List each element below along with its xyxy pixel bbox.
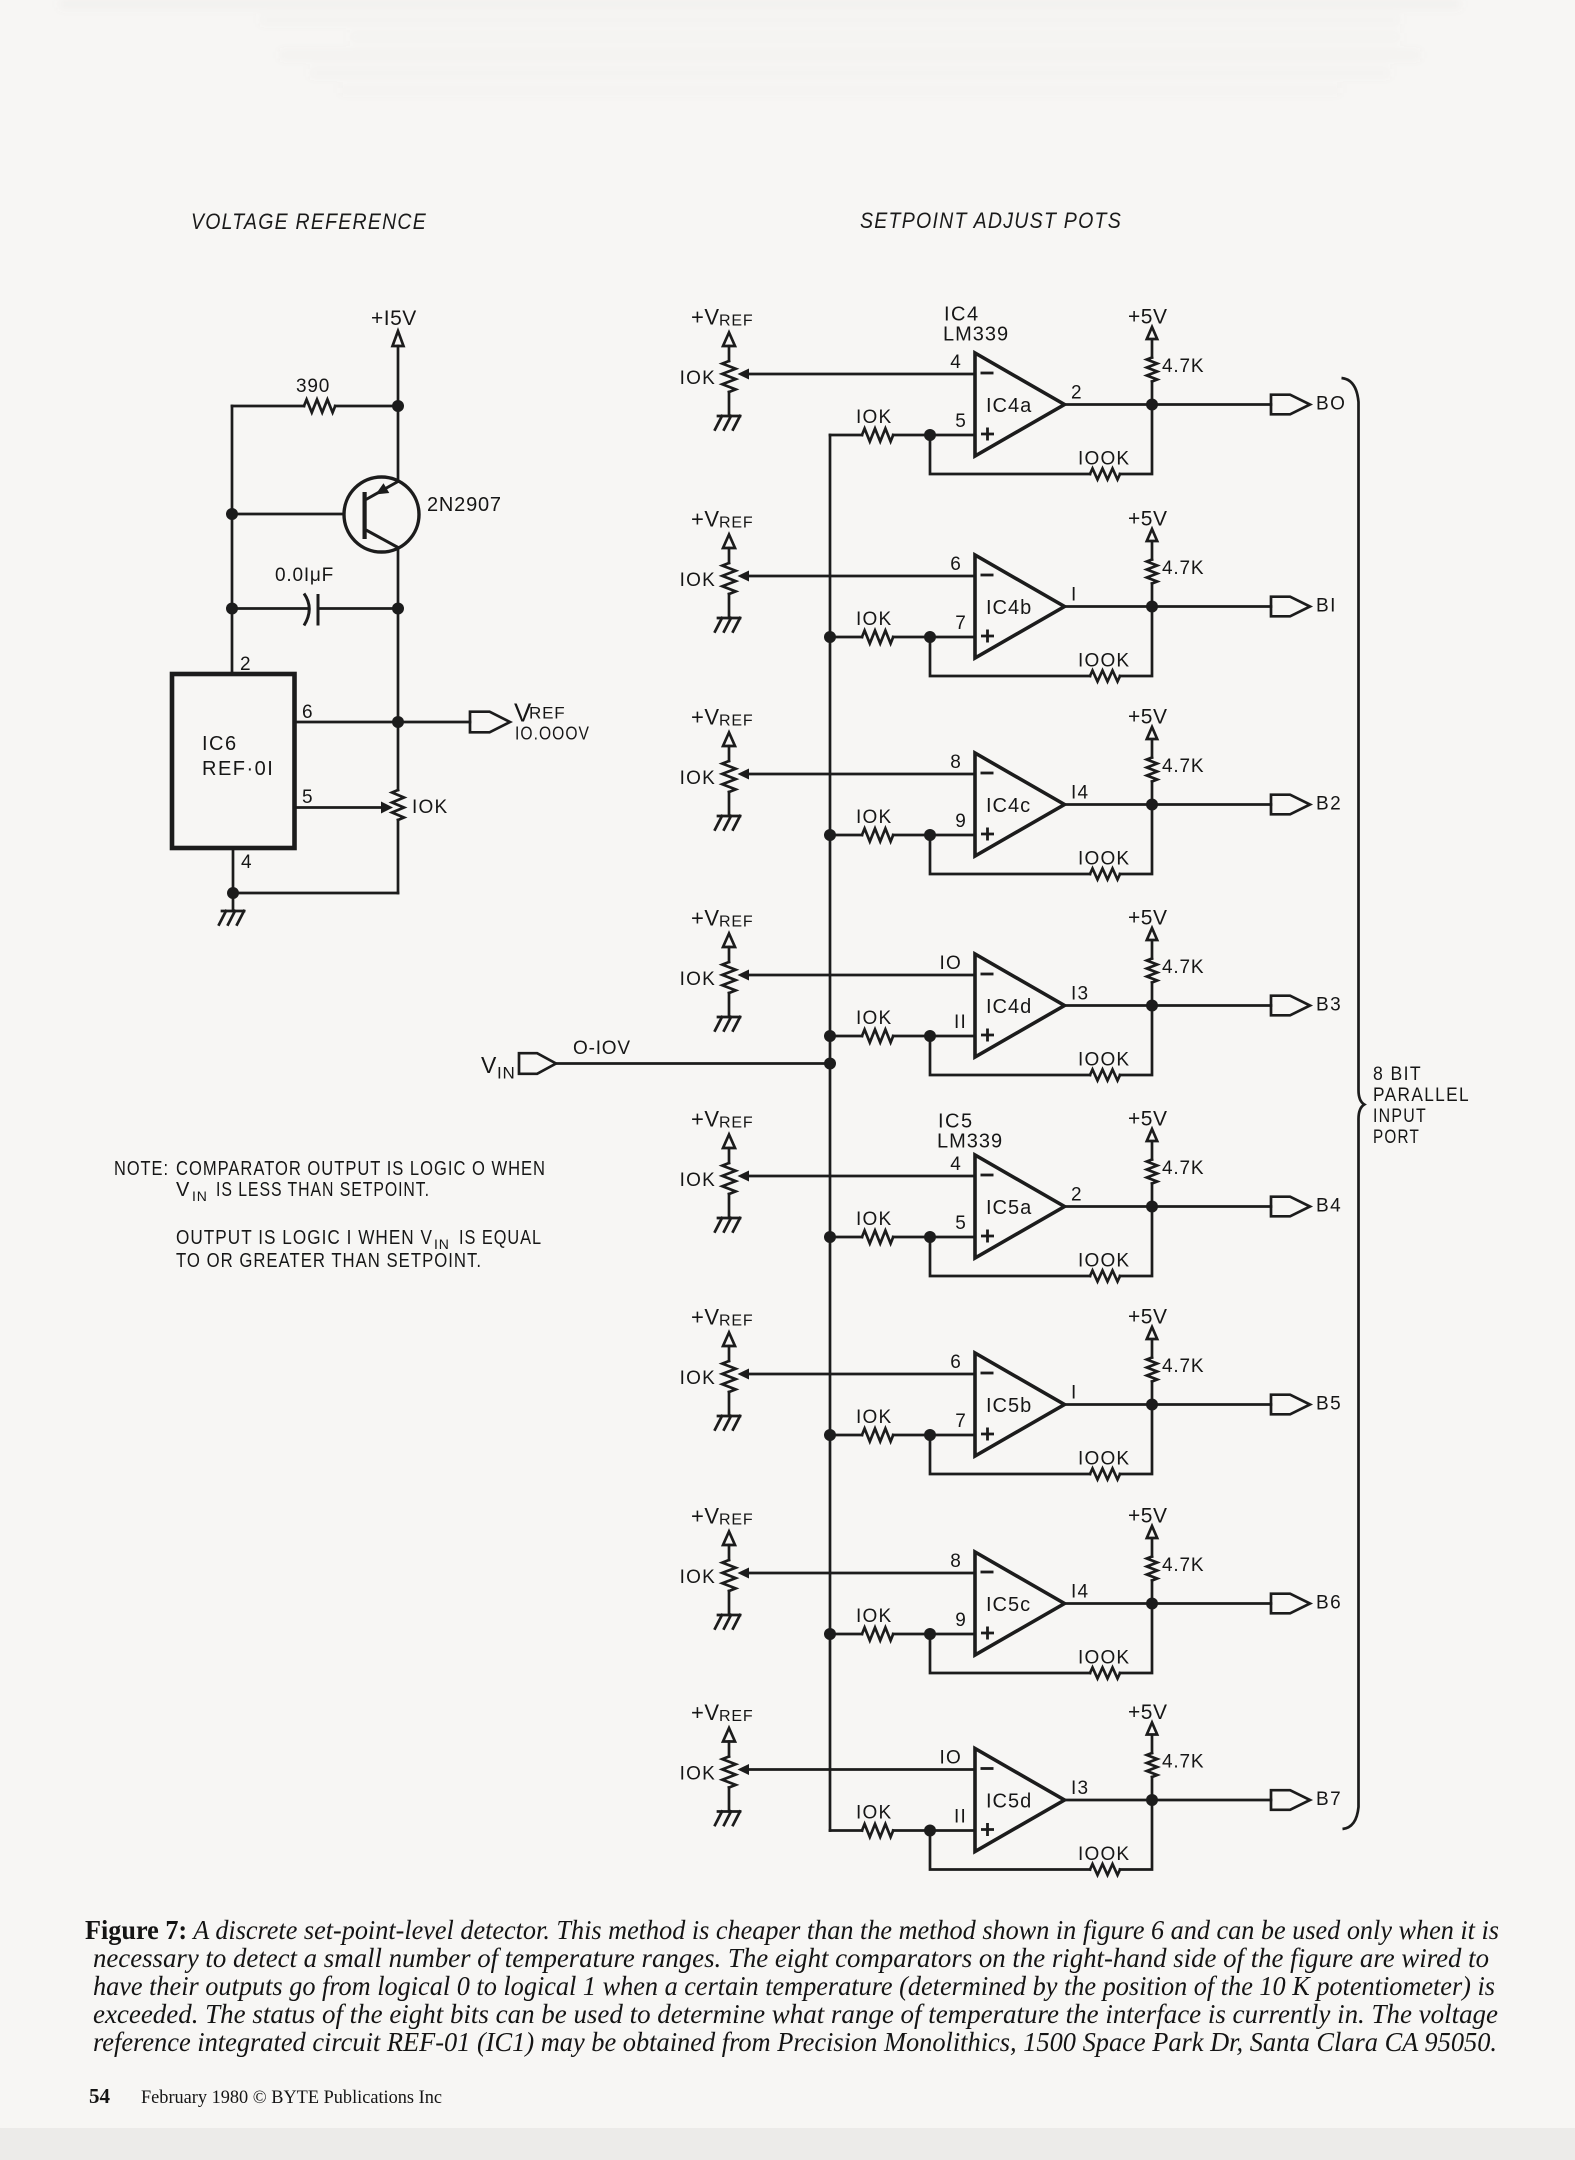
- svg-text:PORT: PORT: [1373, 1127, 1420, 1148]
- comparator stage IC5c: [680, 1504, 1310, 1679]
- net VIN label: [481, 1052, 516, 1083]
- svg-text:2N2907: 2N2907: [427, 494, 502, 516]
- svg-text:IS LESS THAN SETPOINT.: IS LESS THAN SETPOINT.: [216, 1179, 430, 1201]
- svg-text:B4: B4: [1316, 1196, 1342, 1217]
- node top junction: [392, 400, 404, 412]
- svg-text:8: 8: [950, 1551, 962, 1572]
- svg-text:IC4c: IC4c: [986, 795, 1031, 817]
- port VIN input flag: [519, 1053, 556, 1074]
- wire pin5 wiper arrow: [295, 802, 394, 814]
- resistor R 390: [232, 376, 398, 413]
- comparator stage IC4b: [680, 507, 1310, 682]
- svg-text:TO OR GREATER THAN SETPOINT.: TO OR GREATER THAN SETPOINT.: [176, 1250, 482, 1272]
- svg-text:IC4b: IC4b: [986, 597, 1032, 619]
- net VREF 10.000V label: [514, 698, 590, 744]
- svg-text:NOTE:: NOTE:: [114, 1158, 169, 1180]
- wire VIN distribution bus: [829, 435, 832, 1831]
- svg-text:PARALLEL: PARALLEL: [1373, 1085, 1470, 1106]
- svg-text:6: 6: [950, 554, 962, 575]
- svg-text:IC4d: IC4d: [986, 996, 1032, 1018]
- svg-text:IO.OOOV: IO.OOOV: [515, 724, 590, 744]
- svg-text:0.0IμF: 0.0IμF: [275, 565, 334, 586]
- wire pot to bottom rail: [397, 820, 400, 893]
- svg-text:8: 8: [950, 752, 962, 773]
- svg-text:2: 2: [1071, 1185, 1083, 1206]
- wire emitter to +15V junction: [397, 406, 400, 482]
- svg-text:54: 54: [89, 2084, 111, 2108]
- svg-text:5: 5: [955, 411, 967, 432]
- svg-text:B6: B6: [1316, 1593, 1342, 1614]
- note text: [114, 1158, 546, 1204]
- svg-text:reference integrated circuit R: reference integrated circuit REF-01 (IC1…: [93, 2027, 1497, 2057]
- wire left vertical rail: [231, 406, 234, 674]
- svg-text:II: II: [954, 1807, 967, 1828]
- op-amp IC6 REF-01 box: [172, 674, 295, 848]
- capacitor C 0.01uF: [232, 565, 398, 626]
- svg-text:2: 2: [1071, 383, 1083, 404]
- decorative bleed (not labelled further): [60, 0, 1460, 94]
- svg-text:B5: B5: [1316, 1394, 1342, 1415]
- svg-text:OUTPUT IS LOGIC I WHEN V: OUTPUT IS LOGIC I WHEN V: [176, 1227, 433, 1249]
- svg-text:INPUT: INPUT: [1373, 1106, 1427, 1127]
- svg-text:I4: I4: [1071, 1582, 1089, 1603]
- svg-text:7: 7: [955, 1411, 967, 1432]
- node bus junction stage 6: [824, 1429, 836, 1441]
- node bus junction VIN: [824, 1058, 836, 1070]
- svg-text:REF: REF: [529, 704, 565, 723]
- svg-text:SETPOINT ADJUST POTS: SETPOINT ADJUST POTS: [860, 208, 1122, 233]
- node bus junction stage 5: [824, 1231, 836, 1243]
- svg-text:REF·0I: REF·0I: [202, 758, 274, 780]
- comparator stage IC4c: [680, 705, 1310, 880]
- svg-text:4: 4: [950, 352, 962, 373]
- svg-text:I: I: [1071, 585, 1077, 606]
- svg-text:IC5d: IC5d: [986, 1791, 1032, 1813]
- svg-text:B3: B3: [1316, 995, 1342, 1016]
- svg-text:February 1980 © BYTE Publicati: February 1980 © BYTE Publications Inc: [141, 2087, 442, 2108]
- node bus junction stage 7: [824, 1628, 836, 1640]
- svg-text:II: II: [954, 1012, 967, 1033]
- svg-text:IO: IO: [940, 953, 962, 974]
- svg-text:IO: IO: [940, 1748, 962, 1769]
- svg-text:4: 4: [950, 1154, 962, 1175]
- transistor Q1 2N2907: [344, 477, 502, 552]
- svg-text:B7: B7: [1316, 1789, 1342, 1810]
- svg-text:COMPARATOR OUTPUT IS LOGIC O W: COMPARATOR OUTPUT IS LOGIC O WHEN: [176, 1158, 546, 1180]
- ground (reference): [219, 893, 244, 925]
- svg-text:IC5a: IC5a: [986, 1197, 1032, 1219]
- svg-text:have their outputs go from log: have their outputs go from logical 0 to …: [93, 1971, 1495, 2001]
- svg-text:I3: I3: [1071, 1778, 1089, 1799]
- note text second paragraph: [176, 1227, 542, 1272]
- svg-text:Figure 7: A discrete set-point: Figure 7: A discrete set-point-level det…: [85, 1915, 1499, 1945]
- svg-text:6: 6: [302, 702, 314, 723]
- svg-text:V: V: [481, 1052, 498, 1078]
- +15V power arrow: [393, 331, 404, 346]
- wire collector down to VREF node: [397, 548, 400, 723]
- wire pin6 to VREF flag: [295, 721, 471, 724]
- node VREF junction: [392, 716, 404, 728]
- svg-text:IOK: IOK: [412, 797, 448, 818]
- node capacitor left junction: [226, 603, 238, 615]
- wire base: [232, 513, 363, 516]
- comparator stage IC5d: [680, 1700, 1310, 1875]
- svg-text:6: 6: [950, 1352, 962, 1373]
- svg-text:4: 4: [241, 852, 253, 873]
- comparator stage IC4d: [680, 906, 1310, 1081]
- svg-text:7: 7: [955, 613, 967, 634]
- wire VIN to bus: [556, 1062, 830, 1065]
- svg-text:I3: I3: [1071, 984, 1089, 1005]
- node bus junction stage 4: [824, 1030, 836, 1042]
- node bus junction stage 3: [824, 829, 836, 841]
- svg-text:IC6: IC6: [202, 733, 238, 755]
- svg-text:IC5b: IC5b: [986, 1395, 1032, 1417]
- comparator stage IC5a: [680, 1107, 1310, 1282]
- node base junction: [226, 508, 238, 520]
- wire +15V to top junction: [397, 346, 400, 406]
- IC5 LM339 label: [937, 1111, 1003, 1153]
- svg-text:IN: IN: [497, 1064, 516, 1083]
- svg-text:IC4: IC4: [944, 304, 980, 326]
- svg-text:8 BIT: 8 BIT: [1373, 1064, 1422, 1085]
- node ground junction: [227, 887, 239, 899]
- label 8 BIT PARALLEL INPUT PORT: [1373, 1064, 1470, 1148]
- svg-text:IS EQUAL: IS EQUAL: [459, 1227, 542, 1249]
- svg-text:IN: IN: [192, 1188, 208, 1204]
- wire bottom return: [233, 892, 398, 895]
- brace 8-bit port: [1342, 378, 1365, 1829]
- node bus junction stage 2: [824, 631, 836, 643]
- IC4 LM339 label: [943, 304, 1009, 346]
- svg-text:BO: BO: [1316, 394, 1346, 415]
- svg-text:B2: B2: [1316, 794, 1342, 815]
- potentiometer 10K (reference trim): [392, 722, 448, 820]
- svg-text:exceeded. The status of the ei: exceeded. The status of the eight bits c…: [93, 1999, 1498, 2029]
- svg-text:9: 9: [955, 811, 967, 832]
- caption figure 7: [85, 1915, 1499, 2057]
- svg-text:LM339: LM339: [943, 324, 1009, 346]
- svg-text:IC4a: IC4a: [986, 395, 1032, 417]
- comparator stage IC5b: [680, 1305, 1310, 1480]
- svg-text:V: V: [176, 1179, 191, 1201]
- svg-text:390: 390: [296, 376, 330, 397]
- svg-text:+I5V: +I5V: [371, 307, 417, 330]
- svg-text:IC5c: IC5c: [986, 1594, 1031, 1616]
- svg-text:VOLTAGE REFERENCE: VOLTAGE REFERENCE: [191, 209, 427, 234]
- VREF output flag: [470, 712, 510, 733]
- node capacitor right junction: [392, 603, 404, 615]
- svg-text:IC5: IC5: [938, 1111, 974, 1133]
- svg-text:5: 5: [955, 1213, 967, 1234]
- svg-text:5: 5: [302, 787, 314, 808]
- svg-text:I4: I4: [1071, 783, 1089, 804]
- svg-text:O-IOV: O-IOV: [573, 1038, 631, 1059]
- svg-text:BI: BI: [1316, 596, 1337, 617]
- svg-text:LM339: LM339: [937, 1131, 1003, 1153]
- svg-text:9: 9: [955, 1610, 967, 1631]
- svg-text:necessary to detect a small nu: necessary to detect a small number of te…: [93, 1943, 1489, 1973]
- comparator stage IC4a: [680, 305, 1310, 480]
- wire pin4 down: [232, 848, 235, 893]
- svg-text:I: I: [1071, 1383, 1077, 1404]
